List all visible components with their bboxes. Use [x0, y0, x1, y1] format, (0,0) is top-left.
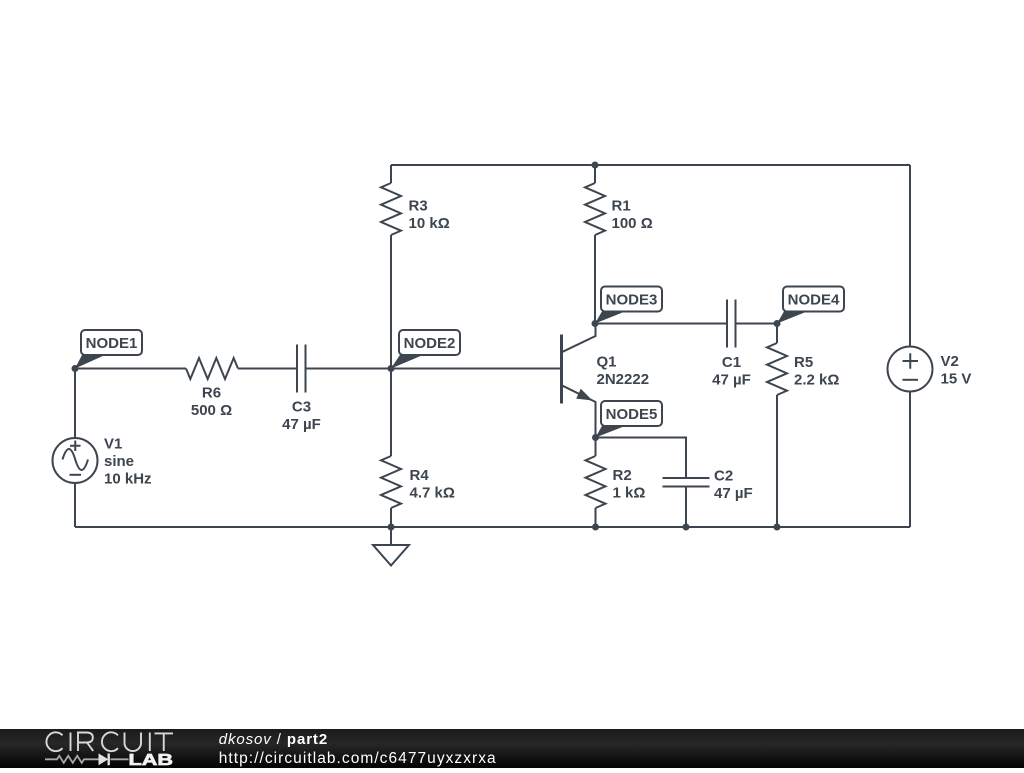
svg-text:LAB: LAB	[129, 752, 174, 768]
voltage source V1 (sine)	[53, 438, 98, 483]
junction dot bottom rail / R4	[388, 524, 395, 531]
wire bottom ground rail	[75, 526, 910, 528]
svg-text:47 µF: 47 µF	[282, 416, 321, 433]
footer black bar	[0, 729, 1024, 768]
capacitor C2	[663, 478, 710, 487]
wire C3 to Q1 base	[306, 368, 562, 370]
resistor R3	[390, 165, 392, 183]
wire V1 bottom to rail	[74, 483, 76, 527]
svg-text:R5: R5	[794, 354, 813, 371]
svg-text:2.2 kΩ: 2.2 kΩ	[794, 372, 839, 389]
svg-text:NODE2: NODE2	[404, 335, 456, 352]
resistor R6	[186, 358, 238, 379]
junction dot NODE4	[774, 320, 781, 327]
node label NODE4 box	[783, 287, 844, 312]
junction dot NODE3	[592, 320, 599, 327]
junction dot NODE2	[388, 365, 395, 372]
logo resistor-diode glyph	[45, 756, 129, 763]
wire right rail upper (top rail to V2)	[909, 165, 911, 347]
svg-text:10 kHz: 10 kHz	[104, 471, 152, 488]
wire top rail	[391, 164, 910, 166]
resistor R1	[594, 165, 596, 183]
svg-text:C1: C1	[722, 354, 741, 371]
svg-text:http://circuitlab.com/c6477uyx: http://circuitlab.com/c6477uyxzxrxa	[219, 750, 497, 767]
svg-text:R6: R6	[202, 385, 221, 402]
svg-text:V1: V1	[104, 436, 122, 453]
svg-text:NODE1: NODE1	[86, 335, 138, 352]
node label NODE5 box	[601, 401, 662, 426]
ground symbol	[390, 527, 392, 545]
svg-text:V2: V2	[941, 353, 959, 370]
node label NODE2 tail	[391, 354, 423, 369]
svg-text:R4: R4	[410, 467, 430, 484]
junction dot bottom rail / R2	[592, 524, 599, 531]
node label NODE3 box	[601, 287, 662, 312]
wire NODE3 to C1	[595, 323, 727, 325]
svg-text:R2: R2	[613, 467, 632, 484]
wire C2 to bottom rail	[685, 487, 687, 528]
svg-text:100 Ω: 100 Ω	[612, 215, 653, 232]
wire NODE5 to C2	[596, 438, 687, 479]
svg-text:15 V: 15 V	[941, 371, 972, 388]
capacitor C3	[297, 345, 306, 393]
svg-text:NODE5: NODE5	[606, 406, 658, 423]
junction dot bottom rail / R5	[774, 524, 781, 531]
svg-text:1 kΩ: 1 kΩ	[613, 485, 646, 502]
node label NODE1 tail	[75, 354, 105, 369]
svg-text:C2: C2	[714, 468, 733, 485]
svg-text:dkosov / part2: dkosov / part2	[219, 731, 328, 748]
svg-text:2N2222: 2N2222	[597, 371, 650, 388]
svg-text:10 kΩ: 10 kΩ	[409, 215, 450, 232]
svg-text:47 µF: 47 µF	[714, 485, 753, 502]
transistor Q1 2N2222	[562, 324, 596, 438]
wire right rail lower (V2 to bottom rail)	[909, 392, 911, 528]
wire NODE1 to R6	[75, 368, 186, 370]
CircuitLab logo word CIRCUIT	[46, 732, 173, 751]
svg-text:Q1: Q1	[597, 354, 617, 371]
wire NODE1 to V1 top	[74, 369, 76, 439]
resistor R2	[595, 438, 597, 457]
resistor R5	[776, 324, 778, 344]
junction dot NODE1	[72, 365, 79, 372]
voltage source V2	[888, 347, 933, 392]
junction dot bottom rail / C2	[683, 524, 690, 531]
svg-text:sine: sine	[104, 453, 134, 470]
node label NODE4 tail	[777, 311, 807, 324]
svg-text:500 Ω: 500 Ω	[191, 402, 232, 419]
capacitor C1	[727, 300, 736, 348]
svg-text:47 µF: 47 µF	[712, 372, 751, 389]
junction dot top rail / R1	[592, 162, 599, 169]
wire R6 to C3	[238, 368, 297, 370]
node label NODE3 tail	[595, 311, 625, 324]
svg-text:NODE3: NODE3	[606, 292, 658, 309]
node label NODE2 box	[399, 330, 460, 355]
node label NODE5 tail	[596, 425, 626, 438]
junction dot NODE5	[592, 434, 599, 441]
svg-text:4.7 kΩ: 4.7 kΩ	[410, 485, 455, 502]
svg-text:R3: R3	[409, 198, 428, 215]
svg-text:R1: R1	[612, 198, 631, 215]
svg-text:C3: C3	[292, 399, 311, 416]
node label NODE1 box	[81, 330, 142, 355]
svg-text:NODE4: NODE4	[788, 292, 840, 309]
wire C1 to NODE4	[736, 323, 778, 325]
resistor R4	[390, 369, 392, 457]
